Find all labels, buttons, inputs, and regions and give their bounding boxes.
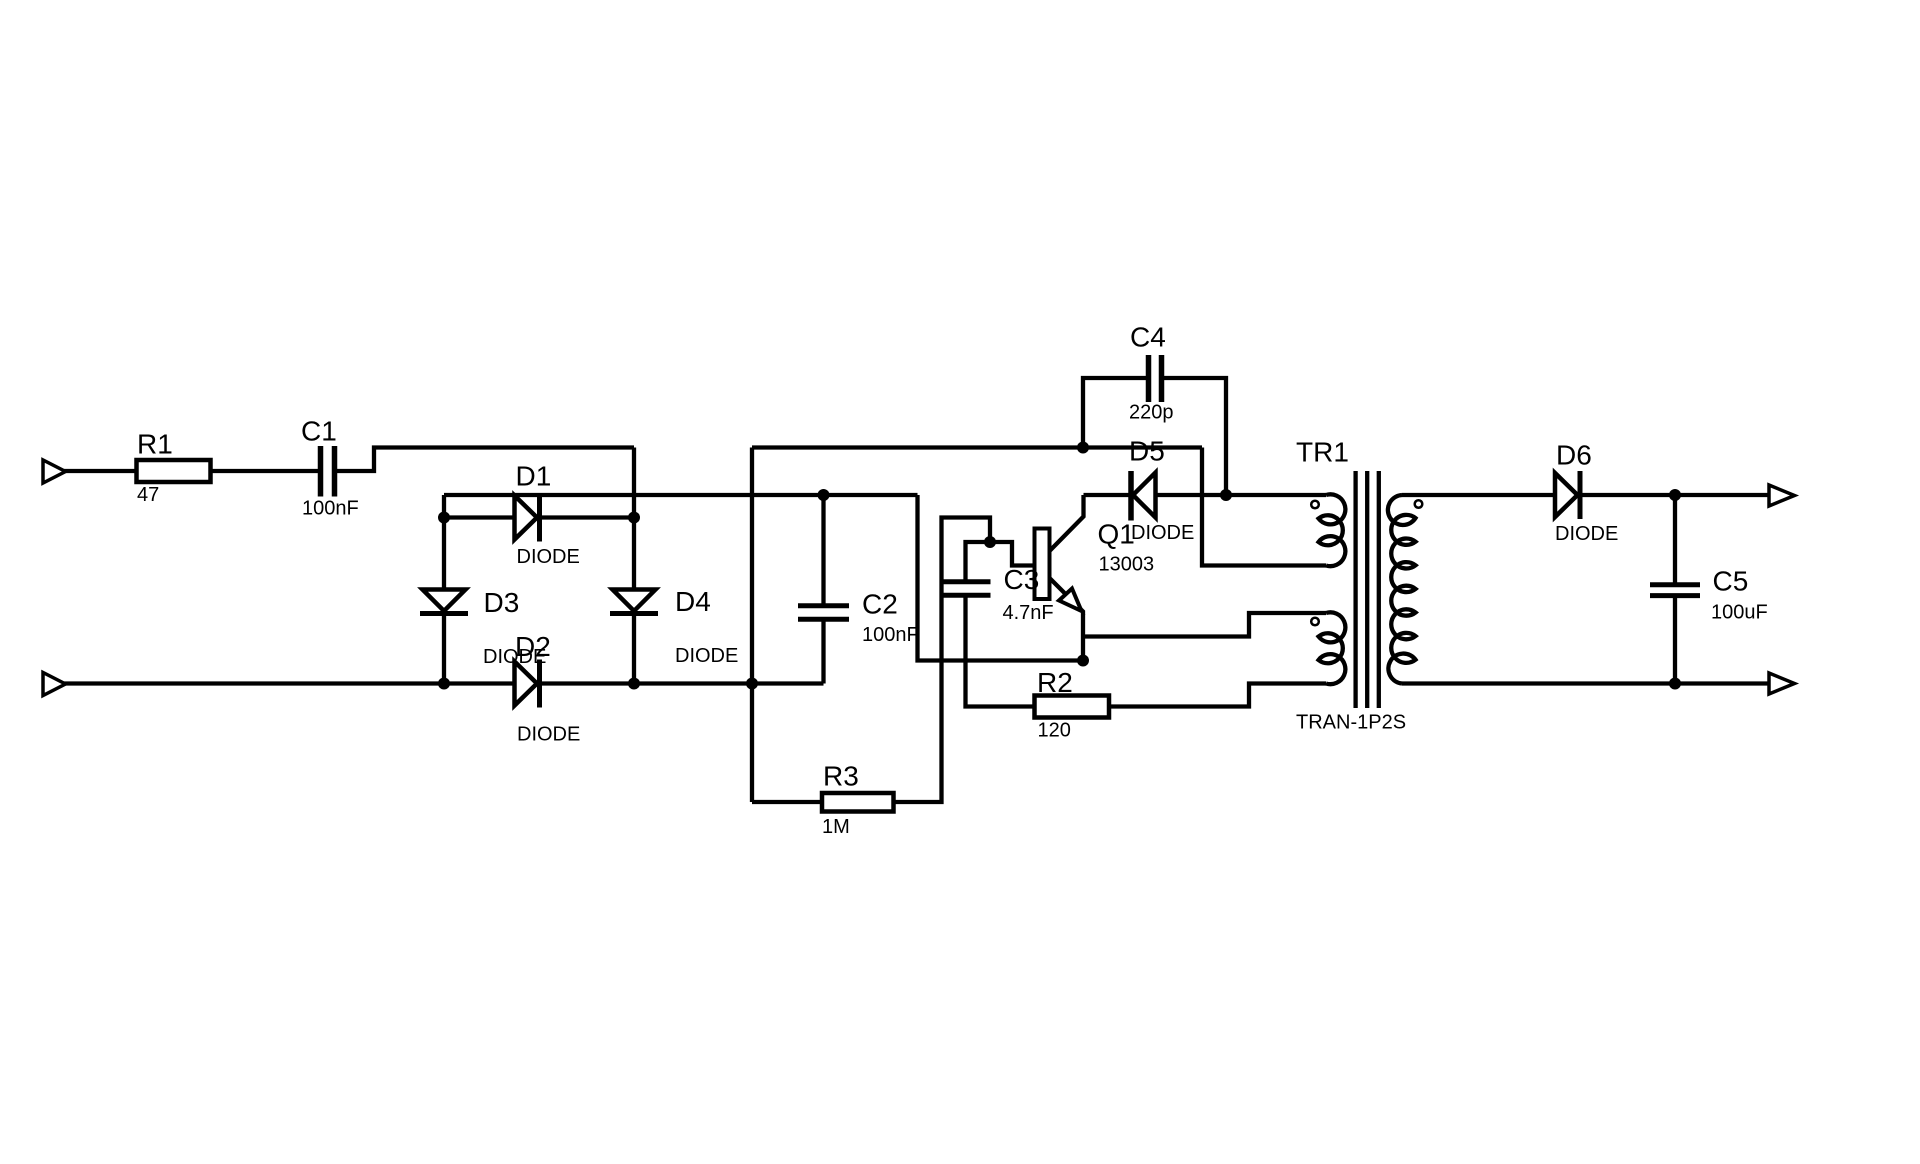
output terminal OUT+ (arrow) <box>1769 485 1795 506</box>
capacitor C5 <box>1673 495 1677 585</box>
node dot startup column <box>746 678 758 690</box>
wire Q1 collector to D5 <box>1084 493 1129 497</box>
wire D1 row left <box>442 495 446 518</box>
svg-text:R1: R1 <box>137 429 173 460</box>
svg-text:D3: D3 <box>484 587 520 618</box>
transformer TR1 polarity dot lower <box>1311 618 1319 626</box>
svg-text:120: 120 <box>1038 720 1071 742</box>
node dot D2 left <box>438 678 450 690</box>
svg-text:D6: D6 <box>1556 440 1592 471</box>
diode D1 <box>515 496 538 540</box>
wire D6 to output <box>1580 493 1769 497</box>
capacitor C2 <box>821 495 825 606</box>
diode D4 <box>613 590 656 612</box>
svg-text:DIODE: DIODE <box>517 724 580 746</box>
diode D6 <box>1555 473 1578 517</box>
svg-text:47: 47 <box>137 484 159 506</box>
node dot output+ <box>1669 489 1681 501</box>
wire DC rail corner to emitter row <box>918 495 1084 661</box>
svg-text:D5: D5 <box>1129 436 1165 467</box>
svg-text:R3: R3 <box>823 761 859 792</box>
svg-text:TR1: TR1 <box>1296 437 1349 468</box>
svg-text:D1: D1 <box>516 461 552 492</box>
wire C3 top connection <box>966 542 991 582</box>
wire D1 to node <box>540 515 635 519</box>
transistor Q1 emitter <box>1050 578 1084 661</box>
node dot base <box>984 536 996 548</box>
svg-text:D2: D2 <box>515 631 551 662</box>
svg-text:C4: C4 <box>1130 322 1166 353</box>
node dot D1 right <box>628 512 640 524</box>
wire IN1 to R1 <box>64 469 136 473</box>
transistor Q1 emitter arrow <box>1059 589 1082 612</box>
svg-text:DIODE: DIODE <box>675 645 738 667</box>
svg-text:C2: C2 <box>862 589 898 620</box>
wire startup column x=752 <box>750 448 754 803</box>
node dot emitter <box>1077 655 1089 667</box>
node dot C4 tap <box>1077 442 1089 454</box>
node dot D1 left <box>438 512 450 524</box>
transistor Q1 collector <box>1050 495 1084 551</box>
wire DC+ rail <box>444 493 918 497</box>
svg-text:1M: 1M <box>822 816 850 838</box>
wire secondary bottom to output <box>1402 681 1769 685</box>
svg-text:C3: C3 <box>1004 564 1040 595</box>
capacitor C1 <box>318 446 324 497</box>
svg-text:100nF: 100nF <box>862 624 919 646</box>
resistor R1 <box>137 460 211 482</box>
svg-text:13003: 13003 <box>1099 554 1155 576</box>
svg-text:C5: C5 <box>1713 566 1749 597</box>
svg-text:Q1: Q1 <box>1098 519 1135 550</box>
transformer TR1 lower winding <box>1319 612 1346 684</box>
input terminal IN2 (arrow) <box>43 673 66 696</box>
svg-text:220p: 220p <box>1129 402 1174 424</box>
svg-text:DIODE: DIODE <box>517 546 580 568</box>
wire R1 to C1 <box>211 469 319 473</box>
svg-text:100uF: 100uF <box>1711 602 1768 624</box>
wire D4 column <box>632 518 636 591</box>
wire C3 bottom to R2 <box>966 595 1035 706</box>
svg-text:DIODE: DIODE <box>1555 523 1618 545</box>
wire D4 to bottom rail <box>632 614 636 684</box>
node dot output- <box>1669 678 1681 690</box>
svg-text:R2: R2 <box>1037 667 1073 698</box>
wire R2 right to lower winding bottom <box>1109 684 1326 707</box>
svg-text:C1: C1 <box>301 416 337 447</box>
wire D3 column <box>442 518 446 591</box>
wire top rail drop to primary bottom <box>1202 448 1326 566</box>
transformer TR1 polarity dot primary <box>1311 501 1319 509</box>
wire emitter to lower primary <box>1083 613 1326 637</box>
wire top rail right segment <box>752 445 1202 449</box>
wire riser to bridge node <box>632 448 636 518</box>
node dot C2 top <box>818 489 830 501</box>
svg-text:DIODE: DIODE <box>1131 522 1194 544</box>
output terminal OUT- (arrow) <box>1769 673 1795 694</box>
wire base network <box>990 542 1035 566</box>
diode D3 <box>423 590 466 612</box>
wire D3 to bottom rail <box>442 614 446 684</box>
capacitor C3 <box>944 579 991 584</box>
transistor Q1 base bar <box>1035 529 1050 600</box>
transformer TR1 secondary winding <box>1388 495 1416 684</box>
svg-text:100nF: 100nF <box>302 498 359 520</box>
diode D5 <box>1128 471 1134 521</box>
wire C1 to top rail <box>337 448 634 472</box>
node dot D5/C4 <box>1220 489 1232 501</box>
wire bottom AC rail <box>64 681 824 685</box>
wire R3 right lead to riser <box>894 518 991 803</box>
svg-text:4.7nF: 4.7nF <box>1003 602 1054 624</box>
svg-text:D4: D4 <box>675 586 711 617</box>
capacitor C4 <box>1083 378 1146 448</box>
node dot D2 right <box>628 678 640 690</box>
diode D2 <box>515 662 538 706</box>
input terminal IN1 (arrow) <box>43 460 66 483</box>
resistor R2 <box>1035 696 1110 718</box>
resistor R3 <box>822 793 894 812</box>
wire R3 left lead <box>752 800 822 804</box>
wire secondary top to D6 <box>1402 493 1555 497</box>
transformer TR1 primary winding <box>1319 494 1346 566</box>
transformer TR1 polarity dot secondary <box>1415 500 1423 508</box>
transformer TR1 core <box>1353 471 1357 708</box>
wire D5 to winding <box>1156 493 1327 497</box>
svg-text:TRAN-1P2S: TRAN-1P2S <box>1296 712 1406 734</box>
